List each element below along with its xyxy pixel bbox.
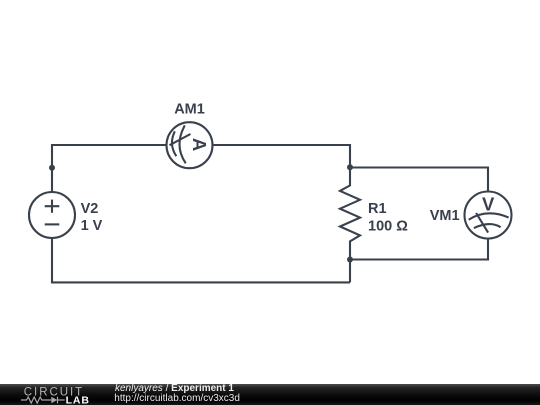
voltage source V2 <box>29 192 75 238</box>
voltmeter VM1 <box>465 192 512 239</box>
footer bar <box>0 384 540 405</box>
svg-text:R1: R1 <box>368 201 387 217</box>
logo diode triangle <box>51 397 57 404</box>
wire R1 bottom node to VM1 bottom <box>350 238 488 260</box>
wire top rail from V2 corner to R1 top <box>52 145 350 192</box>
svg-text:V: V <box>482 194 495 215</box>
svg-text:LAB: LAB <box>66 394 90 405</box>
svg-text:AM1: AM1 <box>174 101 205 117</box>
footer line 2 <box>114 393 240 404</box>
node dot at V2 top <box>49 165 55 171</box>
CircuitLab logo <box>0 383 100 405</box>
svg-text:100 Ω: 100 Ω <box>368 218 408 234</box>
svg-text:A: A <box>189 138 210 151</box>
svg-text:V2: V2 <box>81 201 99 217</box>
logo resistor-diode line <box>21 397 65 404</box>
footer line 1 <box>115 383 234 394</box>
svg-text:1 V: 1 V <box>81 218 103 234</box>
wire R1 top node to VM1 top <box>350 168 488 193</box>
resistor R1 <box>340 168 360 283</box>
svg-text:VM1: VM1 <box>430 208 460 224</box>
wire left bottom from V2 to bottom rail <box>52 238 350 282</box>
node dot at R1 bottom <box>347 257 353 263</box>
node dot at R1 top <box>347 164 353 170</box>
ammeter AM1 <box>167 122 213 168</box>
